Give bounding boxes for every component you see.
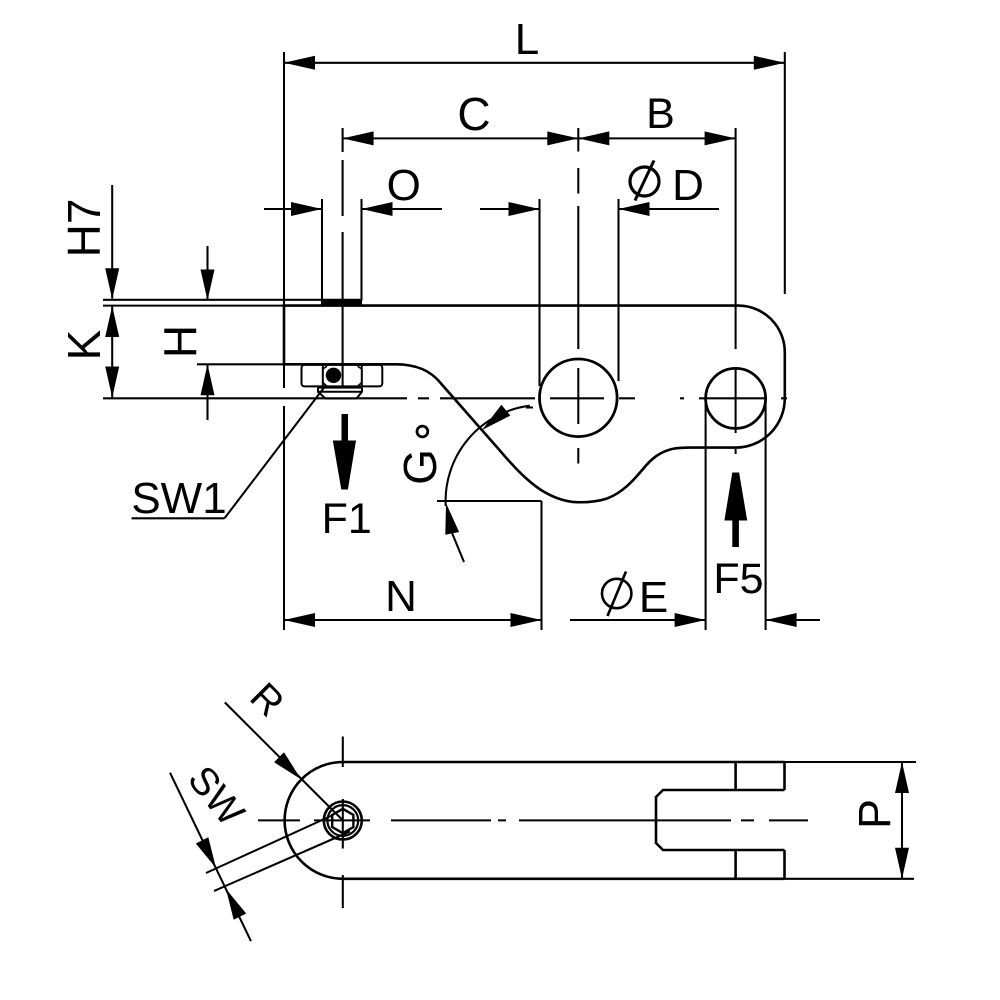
arm bottom edge extension (H reference) bbox=[197, 363, 285, 365]
bottom view left round end bbox=[285, 762, 343, 879]
P dimension line bbox=[901, 762, 903, 879]
N dimension line bbox=[284, 619, 542, 621]
screw center line x=342.6 bbox=[342, 128, 344, 386]
svg-text:P: P bbox=[849, 799, 900, 829]
G arc arrowhead at diagonal bbox=[482, 405, 510, 430]
svg-text:C: C bbox=[457, 88, 490, 140]
D dimension extension lines bbox=[538, 199, 540, 386]
top surface extension line to left bbox=[103, 305, 285, 307]
E dimension extension lines bbox=[705, 400, 707, 630]
svg-text:L: L bbox=[515, 15, 539, 64]
svg-text:G: G bbox=[394, 449, 446, 485]
P extension lines bbox=[785, 761, 917, 763]
small hole E bbox=[706, 368, 766, 428]
H7 dimension line bbox=[111, 185, 113, 299]
H dimension lower line bbox=[206, 364, 208, 420]
bottom view outline top edge bbox=[343, 761, 785, 764]
R leader bbox=[225, 702, 343, 820]
H dimension upper line bbox=[206, 246, 208, 300]
svg-text:F5: F5 bbox=[713, 555, 763, 603]
F5 force arrow bbox=[732, 520, 739, 547]
hex socket SW bbox=[332, 809, 353, 833]
svg-text:B: B bbox=[646, 90, 675, 138]
clamping screw shank left line / O tick bbox=[321, 199, 323, 301]
L dimension right extension bbox=[784, 52, 786, 294]
small hole center line vertical bbox=[735, 128, 737, 454]
B arrows bbox=[578, 131, 609, 145]
SW extension lines bbox=[206, 816, 332, 874]
G arc end stub bbox=[526, 406, 533, 408]
svg-text:SW1: SW1 bbox=[131, 474, 226, 523]
hex nut SW1 bbox=[302, 365, 383, 387]
N dimension right extension / G vertex lines bbox=[437, 500, 542, 502]
svg-text:SW: SW bbox=[179, 758, 252, 834]
G arc bottom arrowhead bbox=[445, 503, 459, 535]
svg-text:E: E bbox=[639, 573, 668, 622]
label diameter E bbox=[602, 579, 631, 608]
F1 force arrow bbox=[342, 414, 349, 441]
O dimension left tail bbox=[264, 208, 322, 210]
pad bottom extension (K reference) merged with center line start bbox=[103, 397, 407, 399]
svg-text:D: D bbox=[672, 161, 704, 210]
ball dot bbox=[326, 368, 341, 383]
bottom view outline bottom edge bbox=[343, 877, 785, 880]
top surface upper thin line (H7 reference) bbox=[103, 299, 362, 301]
O dimension right tail bbox=[362, 208, 443, 210]
label diameter D bbox=[630, 167, 659, 196]
K dimension line bbox=[111, 306, 113, 398]
SW1 leader bbox=[225, 385, 327, 518]
D dimension right tail bbox=[619, 208, 720, 210]
pressure pad bbox=[318, 388, 362, 399]
svg-text:F1: F1 bbox=[322, 495, 372, 543]
G angle arc bbox=[446, 406, 530, 506]
svg-text:O: O bbox=[387, 161, 421, 210]
arm side view outline bbox=[284, 306, 785, 503]
bottom view horizontal center line bbox=[258, 819, 808, 821]
SW dimension line bbox=[170, 773, 251, 942]
L dimension left extension long line bbox=[283, 52, 285, 388]
clamping screw shank right line / O tick bbox=[360, 199, 362, 301]
svg-text:H7: H7 bbox=[58, 199, 110, 258]
E dimension right tail bbox=[766, 619, 820, 621]
clevis slot bbox=[656, 790, 785, 850]
D dimension left tail bbox=[480, 208, 540, 210]
E dimension left tail bbox=[570, 619, 706, 621]
bottom view vertical center line bbox=[342, 737, 344, 909]
G bottom leader bbox=[452, 533, 464, 562]
serrated slot thick bar bbox=[321, 300, 362, 305]
big hole center line vertical bbox=[577, 128, 579, 464]
big hole D bbox=[540, 359, 618, 437]
screw head inner circle bbox=[327, 805, 358, 836]
svg-text:N: N bbox=[385, 572, 417, 621]
bottom view right edge segments bbox=[783, 762, 786, 790]
svg-text:H: H bbox=[155, 325, 207, 358]
svg-text:R: R bbox=[242, 675, 292, 725]
horizontal center line of side view bbox=[418, 397, 787, 399]
C/B dimension line bbox=[343, 137, 736, 139]
step lines bbox=[734, 762, 737, 790]
degree circle of G bbox=[417, 426, 428, 437]
svg-text:K: K bbox=[58, 329, 110, 360]
C arrows bbox=[343, 131, 374, 145]
screw head outer circle bbox=[324, 802, 362, 840]
L dimension line bbox=[284, 62, 785, 64]
nut middle face chamfers bbox=[323, 366, 362, 386]
